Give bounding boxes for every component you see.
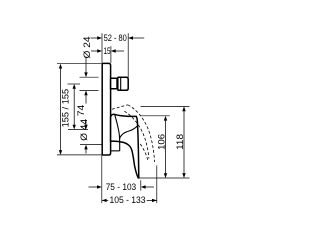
svg-text:Ø 24: Ø 24: [82, 37, 92, 59]
svg-text:52 - 80: 52 - 80: [104, 33, 127, 43]
dashed swung lever top segment: [112, 105, 128, 109]
wire: swung tip extension: [156, 166, 158, 204]
wire: knob stem inner line: [116, 78, 118, 89]
svg-text:155 / 155: 155 / 155: [61, 89, 71, 128]
diameter-44 dimension: [85, 121, 87, 125]
wire: plate bottom extension: [57, 154, 110, 156]
svg-text:15: 15: [104, 46, 111, 56]
svg-text:105 - 133: 105 - 133: [110, 195, 146, 205]
wire: grip front extension: [140, 180, 142, 190]
svg-text:74: 74: [76, 105, 86, 117]
diverter knob cap: [118, 77, 128, 90]
wire: knob axis extension: [68, 83, 81, 85]
118 dimension: [183, 110, 185, 175]
wire: swung-lever top extension for 118: [141, 105, 190, 107]
wire: lever top extension for 106: [141, 115, 170, 117]
dashed swung lever inner edge: [124, 111, 149, 158]
lever cone bottom edge: [111, 150, 120, 152]
52-80 dimension: [91, 37, 98, 39]
wire: bottom reference line: [138, 177, 189, 179]
lever cone right edge: [115, 115, 120, 151]
wire: wall plane extension above plate: [101, 33, 103, 63]
wire: wall plane extension below plate: [101, 155, 103, 203]
svg-text:106: 106: [157, 134, 167, 150]
wire: lever base bottom extension: [80, 144, 103, 146]
74 dimension: [73, 88, 75, 127]
wire: knob cap inner line: [120, 77, 122, 90]
75-103 dimension: [89, 186, 98, 188]
svg-text:Ø 44: Ø 44: [79, 119, 89, 141]
svg-text:118: 118: [175, 134, 185, 150]
dashed swung grip bottom: [140, 144, 147, 160]
svg-text:75 - 103: 75 - 103: [106, 182, 137, 192]
wire: plate top extension: [57, 63, 101, 65]
wire: knob top extension: [80, 76, 99, 78]
escutcheon plate (side view): [102, 63, 110, 155]
lever underside edge: [120, 126, 138, 139]
wire: lever axis extension: [68, 129, 88, 131]
lever handle outline: [111, 114, 139, 178]
wire: plate front face extension: [110, 46, 112, 63]
wire: knob bottom extension: [80, 90, 99, 92]
wire: knob front face extension: [127, 33, 129, 77]
15 dimension: [91, 50, 98, 52]
105-133 dimension: [102, 199, 157, 201]
155/155 dimension: [60, 67, 62, 152]
106 dimension: [165, 119, 167, 174]
dashed swung lever outer edge: [128, 105, 155, 162]
diverter knob stem: [111, 78, 118, 89]
